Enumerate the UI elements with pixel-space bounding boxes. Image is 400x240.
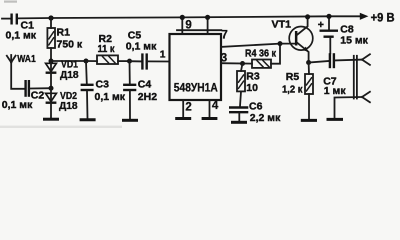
wire C2 to diode node bbox=[30, 87, 51, 89]
ground (pin 2) bbox=[175, 117, 191, 120]
node collector/rail bbox=[305, 14, 310, 19]
svg-text:+: + bbox=[318, 19, 324, 31]
node C8/rail bbox=[326, 14, 331, 19]
svg-text:0,1 мк: 0,1 мк bbox=[2, 99, 33, 111]
capacitor C8 electrolytic bbox=[318, 14, 369, 54]
svg-text:R1: R1 bbox=[57, 26, 71, 38]
svg-text:C6: C6 bbox=[249, 100, 263, 112]
ground (R5) bbox=[301, 119, 317, 122]
wire rail to C8 bbox=[328, 16, 330, 29]
svg-text:9: 9 bbox=[185, 19, 191, 31]
+9V top rail wire bbox=[51, 16, 361, 18]
svg-text:C3: C3 bbox=[96, 78, 110, 90]
wire C5 to IC pin 1 bbox=[148, 60, 170, 62]
wire C7 to output contact bbox=[335, 59, 362, 62]
svg-text:548УН1А: 548УН1А bbox=[174, 81, 218, 95]
svg-text:2Н2: 2Н2 bbox=[138, 91, 157, 103]
wire lower contact to ground bbox=[335, 97, 363, 118]
svg-text:0,1 мк: 0,1 мк bbox=[126, 41, 157, 53]
node diode mid junction bbox=[49, 86, 54, 91]
node C4 junction dot bbox=[127, 59, 132, 64]
node R4/pin7 junction bbox=[278, 41, 283, 46]
wire U1 pin 2 to ground bbox=[182, 100, 184, 117]
wire C6 to ground bbox=[238, 113, 240, 121]
capacitor C5 bbox=[126, 29, 157, 69]
scan specks top-left bbox=[4, 1, 17, 3]
emitter with arrow bbox=[297, 43, 308, 63]
svg-text:VT1: VT1 bbox=[272, 19, 292, 31]
wire C3 to ground bbox=[86, 91, 89, 118]
wire C4 to ground bbox=[129, 91, 131, 119]
ground (connector) bbox=[327, 118, 344, 121]
node emitter junction bbox=[306, 60, 311, 65]
wire VD2 to ground bbox=[50, 103, 52, 118]
wire U1 pin 7 to VT1 base bbox=[221, 44, 295, 47]
ground (C4) bbox=[122, 119, 138, 122]
node rail/supply pin bbox=[205, 15, 210, 20]
ground (pin 4) bbox=[202, 117, 218, 120]
diode VD2 bbox=[46, 88, 78, 118]
svg-text:3: 3 bbox=[221, 52, 227, 64]
wire emitter to C7 bbox=[309, 61, 329, 63]
connector X1 lower contact bbox=[362, 92, 370, 103]
connector X1 body lines bbox=[353, 56, 355, 99]
wire input stub to C1 bbox=[2, 18, 10, 20]
wire rail to pin 9 bbox=[181, 17, 183, 34]
resistor R1 bbox=[47, 18, 83, 61]
capacitor C3 bbox=[81, 61, 126, 119]
wire rail to R1 bbox=[50, 18, 52, 28]
node R3 junction bbox=[240, 61, 245, 66]
capacitor C1 bbox=[2, 14, 37, 42]
svg-text:R5: R5 bbox=[286, 71, 300, 83]
node A junction dot bbox=[49, 59, 54, 64]
wire to R2 bbox=[86, 60, 97, 62]
wire U1 pin 4 to ground bbox=[209, 100, 211, 117]
svg-text:0,1 мк: 0,1 мк bbox=[6, 30, 37, 42]
op-amp U1 548УН1А bbox=[170, 34, 222, 100]
wire to C5 bbox=[130, 60, 142, 62]
antenna WA1 bbox=[7, 54, 36, 89]
capacitor C2 bbox=[2, 80, 45, 111]
collector bbox=[297, 17, 307, 35]
wire R1 to node A bbox=[50, 48, 52, 61]
svg-text:C4: C4 bbox=[138, 78, 152, 90]
base bar bbox=[295, 31, 298, 46]
svg-text:WA1: WA1 bbox=[17, 54, 36, 65]
svg-text:R4 36 к: R4 36 к bbox=[245, 47, 277, 59]
svg-text:1: 1 bbox=[160, 50, 166, 61]
svg-text:1,2 к: 1,2 к bbox=[282, 83, 303, 95]
ground (C3) bbox=[80, 118, 96, 121]
svg-text:Д18: Д18 bbox=[59, 101, 78, 112]
svg-text:C5: C5 bbox=[128, 29, 142, 41]
wire R3 to C6 bbox=[240, 91, 241, 106]
node rail/pin9 bbox=[180, 15, 185, 20]
resistor R5 bbox=[282, 63, 313, 120]
svg-text:+9 В: +9 В bbox=[371, 11, 395, 25]
svg-text:1 мк: 1 мк bbox=[324, 85, 347, 97]
capacitor C7 bbox=[323, 53, 346, 97]
svg-text:C2: C2 bbox=[31, 89, 45, 101]
capacitor C6 bbox=[229, 100, 281, 124]
svg-text:10: 10 bbox=[246, 82, 258, 94]
transistor VT1 bbox=[272, 17, 313, 63]
resistor R4 bbox=[245, 47, 277, 68]
ground (C6) bbox=[231, 121, 247, 124]
wire U1 pin 3 to R4 bbox=[221, 62, 252, 64]
svg-text:15 мк: 15 мк bbox=[340, 34, 368, 46]
wire R5 to ground bbox=[308, 94, 310, 119]
capacitor C4 bbox=[123, 61, 157, 119]
wire antenna down to C2 bbox=[11, 62, 24, 88]
svg-text:2,2 мк: 2,2 мк bbox=[250, 112, 281, 124]
node C3 junction dot bbox=[84, 59, 89, 64]
scan smudge bottom bbox=[0, 126, 122, 128]
wire C8 down bbox=[329, 38, 331, 53]
svg-text:R3: R3 bbox=[246, 71, 260, 83]
svg-text:7: 7 bbox=[221, 29, 227, 41]
svg-text:VD1: VD1 bbox=[61, 59, 78, 70]
svg-text:11 к: 11 к bbox=[98, 43, 116, 55]
wire VD1 to mid node bbox=[50, 73, 52, 88]
wire C1 to rail node bbox=[18, 17, 51, 19]
svg-text:2: 2 bbox=[185, 101, 191, 113]
connector X1 upper contact bbox=[362, 54, 370, 65]
node: C1/R1 rail junction bbox=[48, 15, 53, 20]
resistor R2 bbox=[97, 33, 118, 64]
svg-text:750 к: 750 к bbox=[57, 38, 83, 50]
wire R2 to C4 node bbox=[118, 60, 130, 62]
C1 plates bbox=[10, 14, 12, 25]
svg-text:0,1 мк: 0,1 мк bbox=[95, 91, 126, 103]
svg-text:Д18: Д18 bbox=[60, 70, 79, 81]
wire node A to C3 node bbox=[51, 60, 86, 62]
supply bus above U1 bbox=[177, 29, 221, 31]
power arrow +9 В bbox=[360, 13, 369, 20]
svg-text:4: 4 bbox=[212, 100, 219, 112]
resistor R3 bbox=[237, 64, 260, 107]
wire R4 right to pin7 net bbox=[271, 44, 280, 64]
ground (VD2) bbox=[43, 118, 59, 121]
wire rail to second supply pin bbox=[207, 17, 209, 34]
diode VD1 bbox=[46, 59, 79, 88]
